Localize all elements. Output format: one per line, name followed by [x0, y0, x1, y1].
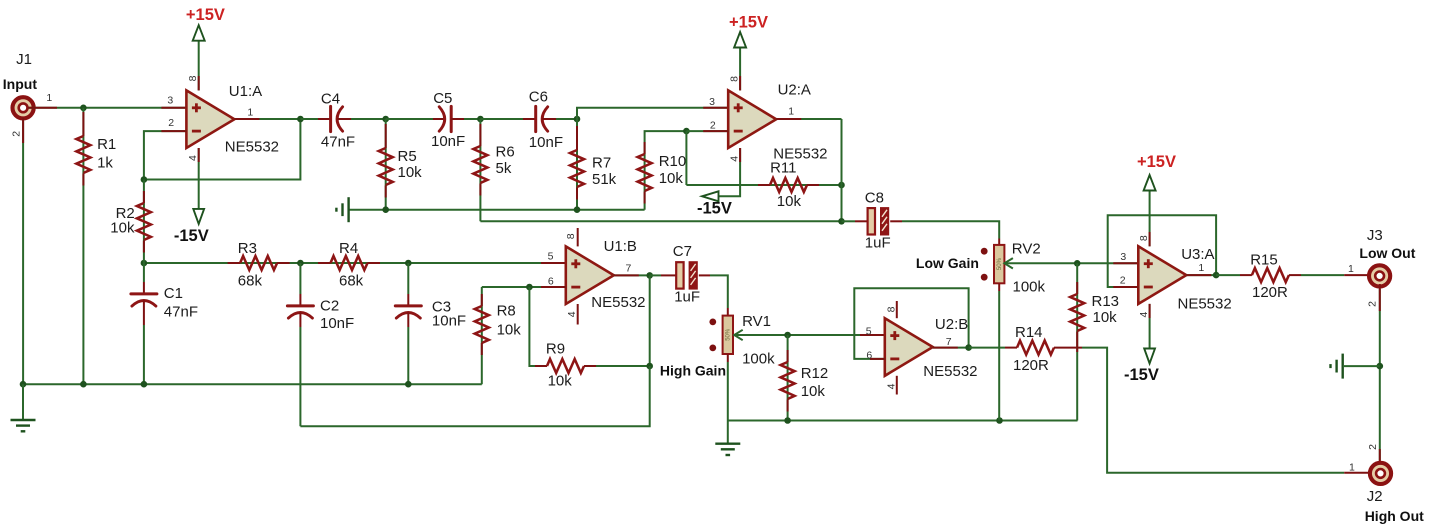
- ground symbol (output): [1331, 354, 1380, 379]
- svg-text:68k: 68k: [339, 273, 364, 290]
- svg-text:6: 6: [866, 350, 872, 362]
- svg-text:2: 2: [710, 119, 716, 131]
- svg-text:8: 8: [728, 76, 740, 82]
- svg-text:2: 2: [10, 131, 22, 137]
- svg-text:100k: 100k: [742, 350, 775, 367]
- wire R14 to J2 (High Out run): [1082, 348, 1376, 473]
- wire U1:B pin6 row: [482, 276, 566, 291]
- junction R2/R3/C1: [141, 260, 148, 267]
- svg-text:2: 2: [1367, 301, 1379, 307]
- svg-text:R14: R14: [1015, 324, 1043, 341]
- wire U2:B output: [933, 336, 1005, 351]
- resistor R4: [318, 240, 380, 290]
- svg-text:10nF: 10nF: [529, 134, 563, 151]
- svg-text:NE5532: NE5532: [923, 363, 977, 380]
- svg-text:10k: 10k: [659, 170, 684, 187]
- main ground rail: [20, 381, 482, 388]
- svg-text:6: 6: [548, 276, 554, 288]
- svg-text:120R: 120R: [1013, 357, 1049, 374]
- svg-text:4: 4: [566, 311, 578, 317]
- pin stub 8 U2:B: [886, 301, 898, 318]
- junction R3/R4/C2: [297, 260, 304, 267]
- svg-text:10k: 10k: [548, 373, 573, 390]
- svg-text:2: 2: [1367, 444, 1379, 450]
- wire R6 bootstrap to C8: [480, 218, 844, 225]
- wire U2:B feedback loop: [854, 288, 968, 361]
- junction C6/R7/U2:A: [574, 116, 581, 123]
- wire C2 feedback run: [300, 366, 649, 426]
- svg-text:C7: C7: [673, 243, 692, 260]
- wire J3 pin2 to J2 pin2: [1367, 284, 1383, 464]
- wire R2 node row (LPF input): [144, 251, 566, 263]
- svg-text:1k: 1k: [97, 155, 113, 172]
- svg-text:1: 1: [1198, 262, 1204, 274]
- svg-text:-15V: -15V: [1124, 366, 1159, 384]
- capacitor C8: [842, 190, 1000, 252]
- capacitor C2: [287, 263, 354, 426]
- svg-text:100k: 100k: [1013, 279, 1046, 296]
- op-amp U2:B: [885, 316, 978, 380]
- wire RV2 top feed: [998, 239, 1000, 245]
- junction C5/C6/R6: [477, 116, 484, 123]
- wire U3:A feedback loop: [1108, 215, 1216, 287]
- svg-text:U1:A: U1:A: [229, 83, 262, 100]
- svg-text:High Out: High Out: [1365, 508, 1424, 524]
- resistor R14: [1005, 324, 1082, 374]
- resistor R2: [110, 180, 151, 264]
- svg-text:8: 8: [1138, 235, 1150, 241]
- wire RV1 wiper to U2:B pin5: [734, 325, 885, 340]
- svg-text:1uF: 1uF: [865, 235, 891, 252]
- power +15V U1:A: [186, 6, 225, 91]
- power -15V U2:A: [697, 148, 740, 218]
- wire U1:B output node (High Gain): [614, 263, 653, 370]
- svg-text:5: 5: [548, 251, 554, 263]
- junction node A: [80, 105, 87, 112]
- svg-text:50%: 50%: [997, 257, 1003, 270]
- svg-text:C4: C4: [321, 91, 340, 108]
- svg-text:Input: Input: [3, 76, 38, 92]
- svg-text:+15V: +15V: [729, 14, 768, 32]
- svg-text:NE5532: NE5532: [591, 294, 645, 311]
- svg-text:5k: 5k: [496, 160, 512, 177]
- svg-text:10nF: 10nF: [432, 313, 466, 330]
- label Low Gain: [916, 255, 979, 271]
- power -15V U1:A: [174, 148, 209, 245]
- svg-text:10k: 10k: [497, 322, 522, 339]
- svg-text:RV2: RV2: [1012, 240, 1041, 257]
- resistor R5: [379, 119, 422, 210]
- wire C6 node to U2:A pin3: [577, 96, 728, 119]
- svg-text:3: 3: [1120, 251, 1126, 263]
- capacitor C4: [300, 91, 385, 151]
- svg-text:4: 4: [1138, 312, 1150, 318]
- svg-text:8: 8: [187, 75, 199, 81]
- svg-text:3: 3: [167, 94, 173, 106]
- svg-text:R13: R13: [1092, 293, 1120, 310]
- svg-text:NE5532: NE5532: [225, 139, 279, 156]
- resistor R11: [686, 160, 844, 210]
- resistor R9: [529, 287, 649, 390]
- svg-text:2: 2: [168, 117, 174, 129]
- resistor R13: [1070, 263, 1119, 420]
- svg-text:1: 1: [1349, 461, 1355, 473]
- svg-text:7: 7: [946, 336, 952, 348]
- ground symbol (HPF rail): [336, 197, 348, 222]
- connector J3: [1348, 227, 1416, 307]
- pin label 3 U1:A: [167, 94, 173, 106]
- potentiometer RV2: [981, 240, 1046, 420]
- svg-text:10k: 10k: [398, 164, 423, 181]
- svg-text:1: 1: [1348, 263, 1354, 275]
- svg-text:R7: R7: [592, 154, 611, 171]
- op-amp U3:A: [1138, 246, 1231, 312]
- svg-text:3: 3: [709, 96, 715, 108]
- svg-text:R11: R11: [770, 160, 796, 177]
- power +15V U3:A: [1137, 153, 1176, 246]
- op-amp U1:A: [186, 83, 279, 156]
- ground symbol (bottom rail): [715, 421, 740, 456]
- wire U1:A output: [234, 106, 303, 122]
- wire U1:A feedback loop: [141, 117, 301, 183]
- svg-text:4: 4: [187, 155, 199, 161]
- svg-text:120R: 120R: [1252, 284, 1288, 301]
- svg-text:5: 5: [866, 325, 872, 337]
- svg-text:NE5532: NE5532: [1178, 295, 1232, 312]
- svg-text:U1:B: U1:B: [604, 238, 637, 255]
- junction C4/C5/R5: [382, 116, 389, 123]
- svg-text:C6: C6: [529, 89, 548, 106]
- svg-text:R9: R9: [546, 341, 565, 358]
- svg-text:Low Out: Low Out: [1359, 245, 1415, 261]
- svg-text:8: 8: [565, 233, 577, 239]
- bottom ground rail: [728, 417, 1078, 424]
- svg-text:C1: C1: [164, 285, 183, 302]
- svg-text:+15V: +15V: [1137, 153, 1176, 171]
- svg-text:10k: 10k: [110, 220, 135, 237]
- svg-text:J1: J1: [16, 51, 32, 68]
- wire RV2 wiper to U3:A pin3: [1004, 251, 1138, 268]
- resistor R15: [1240, 252, 1375, 302]
- resistor R10: [638, 131, 687, 210]
- ground rail (HPF): [349, 206, 645, 213]
- svg-text:J3: J3: [1367, 227, 1383, 244]
- svg-text:Low Gain: Low Gain: [916, 255, 979, 271]
- resistor R6: [473, 119, 514, 221]
- svg-text:1: 1: [788, 106, 794, 118]
- svg-text:1: 1: [46, 92, 52, 104]
- svg-text:R5: R5: [398, 148, 417, 165]
- capacitor C5: [386, 90, 481, 150]
- svg-text:U2:B: U2:B: [935, 316, 968, 333]
- svg-text:1: 1: [247, 106, 253, 118]
- svg-text:10nF: 10nF: [320, 315, 354, 332]
- svg-text:R8: R8: [497, 303, 516, 320]
- svg-text:7: 7: [626, 263, 632, 275]
- wire U3:A output: [1186, 262, 1240, 278]
- connector J1: [3, 51, 53, 137]
- svg-text:R4: R4: [339, 240, 358, 257]
- capacitor C3: [395, 263, 466, 384]
- svg-text:R10: R10: [659, 153, 687, 170]
- label High Gain: [660, 362, 726, 378]
- pin stub 8 U1:B: [565, 228, 578, 246]
- svg-text:1uF: 1uF: [674, 289, 700, 306]
- svg-text:R1: R1: [97, 136, 116, 153]
- pin stub 4 U1:B: [566, 304, 578, 325]
- svg-text:2: 2: [1120, 275, 1126, 287]
- ground symbol (main rail): [11, 384, 36, 431]
- svg-text:RV1: RV1: [742, 313, 771, 330]
- svg-text:47nF: 47nF: [321, 134, 355, 151]
- svg-text:U3:A: U3:A: [1181, 246, 1214, 263]
- potentiometer RV1: [709, 308, 775, 421]
- capacitor C7: [650, 243, 728, 308]
- resistor R1: [76, 108, 116, 384]
- wire U2:A pin2 node: [683, 119, 728, 185]
- svg-text:10k: 10k: [801, 383, 826, 400]
- resistor R12: [781, 335, 829, 421]
- svg-text:47nF: 47nF: [164, 303, 198, 320]
- resistor R8: [475, 287, 521, 384]
- svg-text:68k: 68k: [238, 273, 263, 290]
- svg-text:10nF: 10nF: [431, 133, 465, 150]
- svg-text:-15V: -15V: [697, 200, 732, 218]
- svg-text:C2: C2: [320, 298, 339, 315]
- svg-text:-15V: -15V: [174, 227, 209, 245]
- svg-text:50%: 50%: [726, 328, 732, 341]
- wire J1 pin1 to U1:A pin3 (node A): [28, 107, 186, 109]
- svg-text:C8: C8: [865, 190, 884, 207]
- svg-text:J2: J2: [1367, 488, 1383, 505]
- junction R4/C3/U1:B: [405, 260, 412, 267]
- resistor R7: [570, 119, 617, 210]
- svg-text:R6: R6: [496, 143, 515, 160]
- power -15V U3:A: [1124, 304, 1159, 384]
- resistor R3: [228, 240, 290, 290]
- capacitor C6: [480, 89, 577, 151]
- pin stub 4 U2:B: [886, 376, 898, 395]
- wire J1 pin2 to ground rail: [22, 118, 24, 384]
- svg-text:10k: 10k: [777, 193, 802, 210]
- svg-text:R15: R15: [1250, 252, 1278, 269]
- wire U2:A output to C8 node: [776, 106, 841, 222]
- svg-text:C5: C5: [433, 90, 452, 107]
- svg-text:4: 4: [728, 156, 740, 162]
- svg-text:R12: R12: [801, 365, 829, 382]
- svg-text:51k: 51k: [592, 171, 617, 188]
- svg-text:8: 8: [886, 306, 898, 312]
- svg-text:R3: R3: [238, 240, 257, 257]
- op-amp U1:B: [566, 238, 646, 311]
- svg-text:U2:A: U2:A: [778, 82, 811, 99]
- power +15V U2:A: [728, 14, 768, 91]
- op-amp U2:A: [728, 82, 827, 163]
- svg-text:10k: 10k: [1093, 309, 1118, 326]
- svg-text:+15V: +15V: [186, 6, 225, 24]
- connector J2: [1349, 461, 1424, 524]
- svg-text:High Gain: High Gain: [660, 362, 726, 378]
- svg-text:4: 4: [886, 383, 898, 389]
- capacitor C1: [131, 263, 198, 384]
